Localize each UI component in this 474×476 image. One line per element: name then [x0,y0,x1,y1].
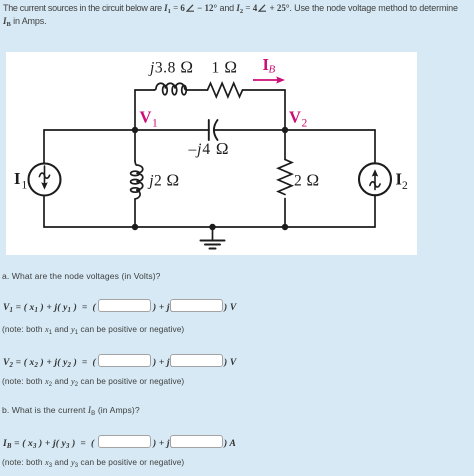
question b [2,405,140,416]
capacitor -j4 plates [208,120,210,140]
node dot bottom-left [132,224,138,230]
wire: right branch upper [374,130,376,163]
wire: V2 to outer-right top [285,129,375,131]
node dot ground [209,224,215,230]
note 3 [2,457,184,467]
formula row IB [0,434,474,450]
current source I1 arrow (down) [39,166,49,183]
wire: top branch left segment [135,89,154,91]
svg-text:2: 2 [402,180,408,192]
wire: top branch right segment [243,89,286,91]
node dot bottom-right [282,224,288,230]
wire: right branch lower [374,195,376,227]
wire: top branch middle segment [186,89,208,91]
note 1 [2,324,184,334]
note 2 [2,376,184,386]
svg-text:1 Ω: 1 Ω [212,58,238,77]
resistor 2ohm (vertical on V2 branch) [284,130,286,160]
svg-text:V: V [140,108,152,127]
svg-text:1: 1 [152,118,158,130]
formula row V2 [0,353,474,369]
svg-text:2: 2 [302,118,308,130]
wire: top node line left (outer-left top to V1) [44,129,135,131]
svg-text:j3.8 Ω: j3.8 Ω [148,58,194,77]
svg-text:1: 1 [22,180,28,192]
resistor 1ohm zigzag [208,83,243,97]
node dot V2 [282,127,288,133]
question a [2,271,161,281]
ground bars [201,240,225,242]
IB arrow (magenta) [253,76,285,83]
white circuit panel [6,52,417,255]
node dot V1 [132,127,138,133]
ground stem [212,227,214,240]
wire: left branch upper [43,130,45,164]
current source I2 arrow (up) [370,176,380,190]
formula row V1 [0,298,474,314]
svg-text:V: V [289,108,301,127]
problem statement paragraph [3,2,474,27]
svg-text:I: I [396,170,402,189]
current source I1 circle [29,164,61,196]
inductor j3.8 (horizontal coil) [154,83,187,95]
svg-text:2 Ω: 2 Ω [294,171,319,190]
svg-text:I: I [14,169,20,188]
current source I2 circle [359,163,391,195]
wire: capacitor right plate to V2 [214,129,285,131]
wire: bottom rail [44,226,375,228]
wire: node line V1 to capacitor left plate [135,129,209,131]
svg-text:B: B [269,64,276,76]
svg-text:–j4 Ω: –j4 Ω [188,139,230,158]
top branch: V2 riser [284,90,286,130]
wire: left branch lower [43,196,45,228]
inductor j2 (vertical coil on V1 branch) [134,130,136,161]
top parallel branch: V1 riser [134,90,136,130]
svg-text:j2 Ω: j2 Ω [147,171,179,190]
